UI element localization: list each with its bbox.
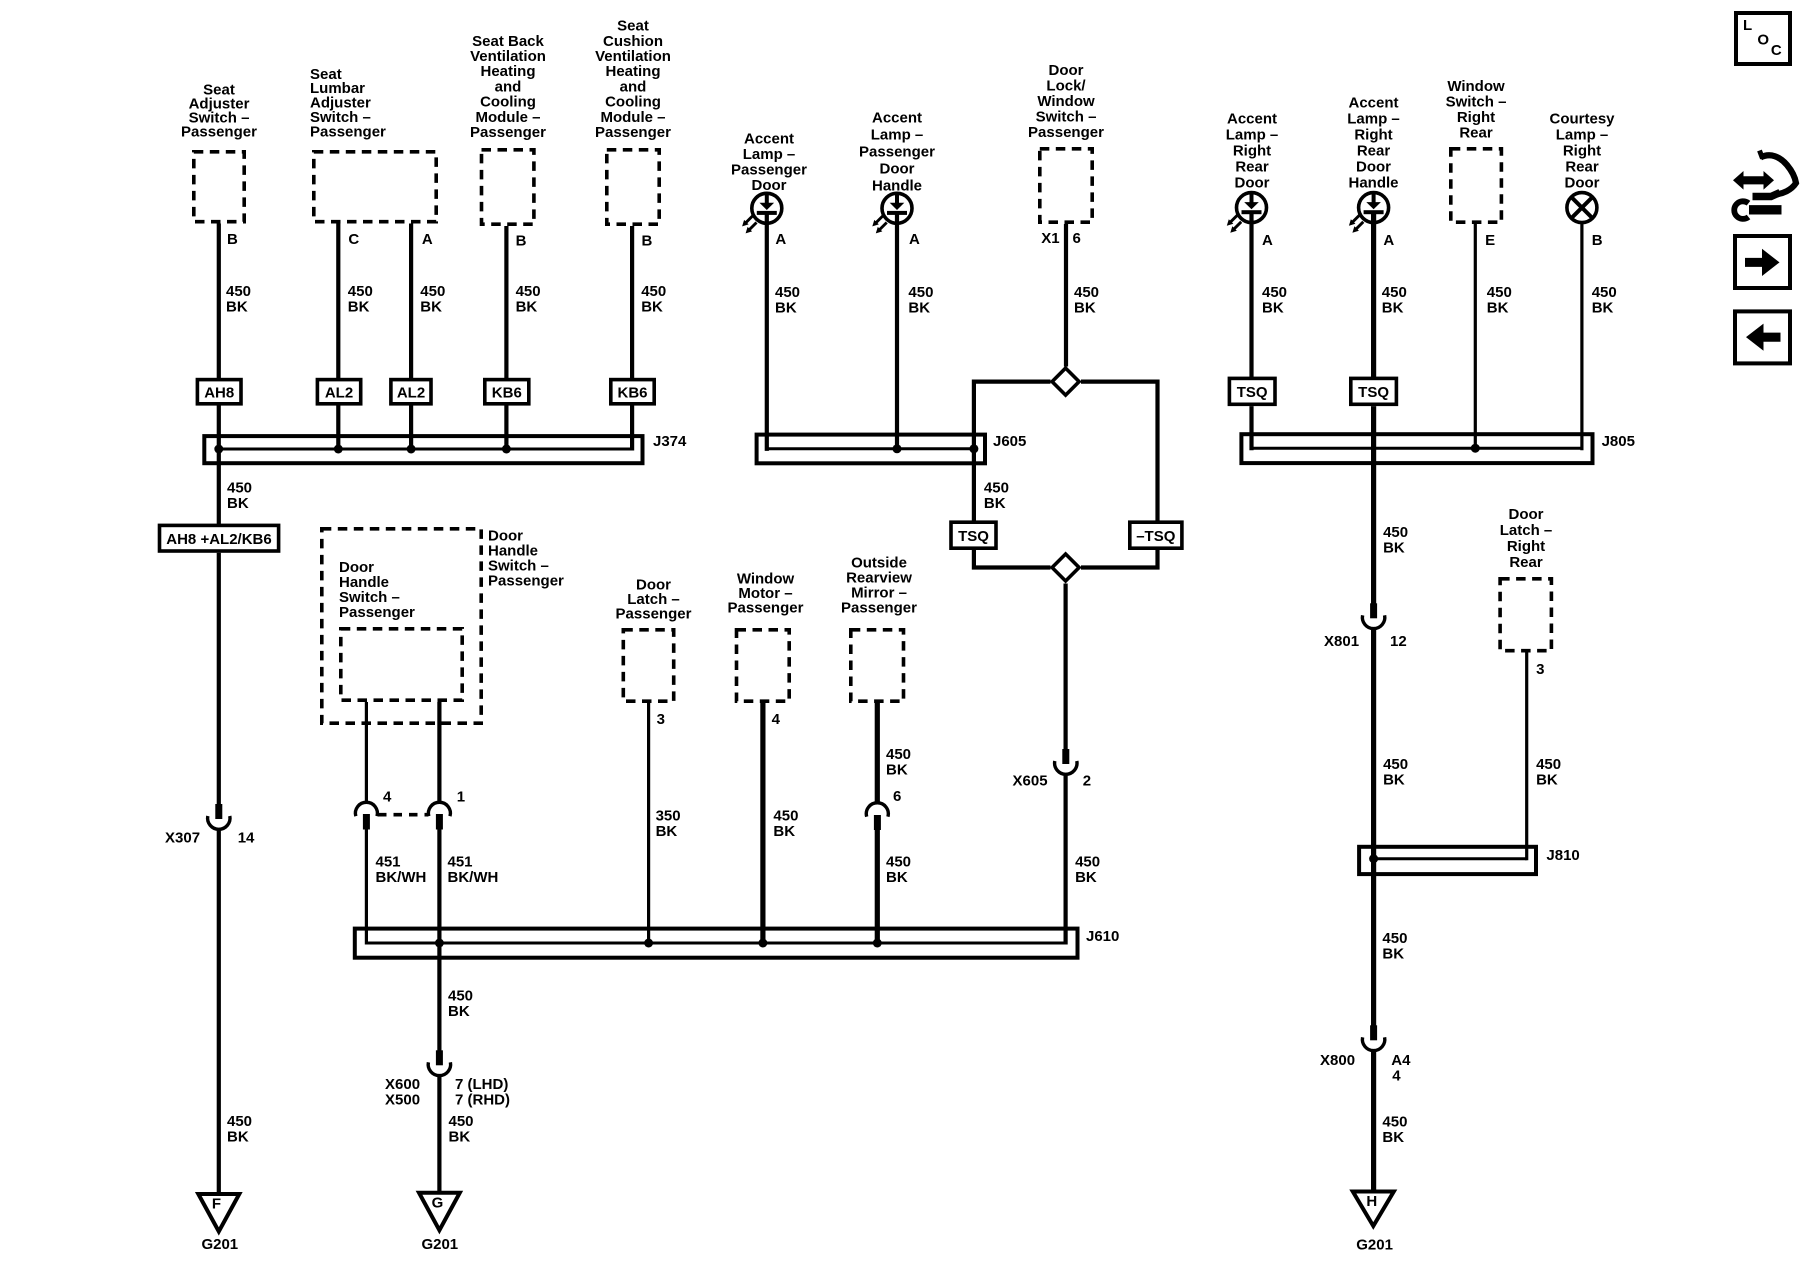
wire: KB6 (2) to J374 corner (630, 404, 634, 451)
inline connector X801 pin 12 (1370, 603, 1377, 618)
component: Door Latch - Right Rear (dashed box) (1500, 579, 1551, 651)
connector code box TSQ (951, 522, 996, 548)
wire: window switch E to J805 (dot) (1474, 224, 1477, 448)
svg-text:Door: Door (752, 177, 787, 194)
junction dot (1471, 444, 1480, 453)
svg-text:B: B (642, 233, 653, 250)
svg-text:Passenger: Passenger (1028, 124, 1104, 141)
svg-text:450: 450 (641, 283, 666, 300)
component: Outside Rearview Mirror - Passenger (dashed box) (851, 630, 904, 701)
svg-text:450: 450 (1074, 284, 1099, 301)
wire: pin 1 connector through J610 to X600 (437, 830, 441, 1051)
svg-text:450: 450 (1262, 284, 1287, 301)
wire: right branch down to -TSQ (1155, 380, 1159, 523)
svg-text:KB6: KB6 (617, 385, 647, 402)
svg-text:A: A (775, 231, 786, 248)
svg-text:Door: Door (1565, 175, 1600, 192)
component: Seat Lumbar Adjuster Switch - Passenger (dashed box) (314, 152, 436, 222)
connector node diamond (bottom) (1052, 554, 1079, 581)
svg-text:Right: Right (1563, 143, 1601, 160)
svg-text:BK/WH: BK/WH (448, 869, 499, 886)
svg-text:450: 450 (227, 1113, 252, 1130)
label: Door Latch - Passenger (616, 577, 692, 623)
svg-text:BK: BK (984, 495, 1006, 512)
wire: inner box pin 1 down (437, 702, 441, 804)
wire: accent lamp 1 to J605 (corner) (765, 213, 769, 451)
svg-text:1: 1 (457, 789, 465, 806)
svg-text:Courtesy: Courtesy (1549, 111, 1615, 128)
junction dot (893, 444, 902, 453)
wire: X801 through J810 down to X800 (1371, 630, 1376, 1026)
wire: accent lamp RR door to TSQ (1249, 212, 1253, 378)
svg-text:J605: J605 (993, 433, 1026, 450)
svg-text:450: 450 (1487, 284, 1512, 301)
inline connector (mirror pin 6) (866, 803, 888, 817)
label: Door Handle Switch - Passenger (inside box) (339, 559, 415, 621)
svg-text:Passenger: Passenger (731, 162, 807, 179)
wire: pin 4 connector to J610 (365, 830, 368, 945)
svg-text:Lock/: Lock/ (1046, 78, 1086, 95)
ground symbol H (1353, 1192, 1394, 1227)
svg-text:X605: X605 (1013, 773, 1048, 790)
lamp L3: Accent Lamp - Right Rear Door (LED symbol) (1227, 192, 1267, 233)
splice bus J374 (204, 436, 642, 463)
svg-text:BK: BK (1592, 300, 1614, 317)
svg-text:6: 6 (893, 788, 901, 805)
svg-text:450: 450 (886, 854, 911, 871)
component: Seat Back Ventilation Heating and Cooling Module (dashed box) (482, 150, 534, 224)
svg-text:AL2: AL2 (397, 385, 425, 402)
label: Seat Cushion Ventilation Heating and Cooling Module - Passenger (595, 18, 671, 141)
wire: X600 to ground G (437, 1077, 441, 1192)
svg-text:Lamp –: Lamp – (871, 127, 924, 144)
svg-text:Passenger: Passenger (841, 600, 917, 617)
wire: Seat Adjuster Switch B to AH8 box (217, 224, 221, 380)
svg-text:J810: J810 (1546, 847, 1579, 864)
label: Window Motor - Passenger (728, 571, 804, 617)
svg-text:G: G (432, 1195, 444, 1212)
svg-text:Rear: Rear (1235, 159, 1269, 176)
svg-text:–TSQ: –TSQ (1136, 528, 1176, 545)
svg-text:BK: BK (908, 300, 930, 317)
svg-text:Handle: Handle (1348, 175, 1398, 192)
svg-text:450: 450 (449, 1113, 474, 1130)
svg-text:TSQ: TSQ (958, 528, 989, 545)
svg-text:451: 451 (448, 854, 473, 871)
svg-text:Lamp –: Lamp – (1347, 111, 1400, 128)
svg-text:Accent: Accent (1348, 95, 1398, 112)
icon: back arrow box (1735, 311, 1790, 363)
component: door handle switch inner dashed box (341, 629, 462, 700)
svg-text:BK: BK (420, 299, 442, 316)
svg-text:Door: Door (1356, 159, 1391, 176)
junction dot (407, 445, 416, 454)
svg-text:450: 450 (1382, 930, 1407, 947)
svg-text:BK: BK (1487, 300, 1509, 317)
svg-text:A: A (1262, 232, 1273, 249)
wire: mirror pin 6 down to connector (875, 703, 880, 804)
svg-text:450: 450 (448, 988, 473, 1005)
svg-text:14: 14 (238, 830, 255, 847)
wire: accent lamp RR door handle to TSQ (1371, 212, 1376, 378)
svg-text:BK: BK (1382, 1129, 1404, 1146)
svg-text:BK: BK (227, 495, 249, 512)
connector code box -TSQ (1130, 522, 1182, 548)
wire: X800 to ground H (1371, 1052, 1376, 1191)
label: Door Latch - Right Rear (1500, 506, 1553, 571)
svg-text:Lamp –: Lamp – (1556, 127, 1609, 144)
component: Seat Cushion Ventilation Heating and Cooling Module (dashed box) (607, 150, 659, 224)
svg-text:BK: BK (775, 300, 797, 317)
svg-text:AH8: AH8 (204, 385, 234, 402)
wire: AL2 (C) to J374 (336, 404, 340, 449)
svg-text:BK: BK (886, 869, 908, 886)
junction dot (758, 939, 767, 948)
wire: diamond horizontal left branch (974, 380, 1051, 384)
wire: lumbar pin C to AL2 (336, 224, 340, 380)
svg-text:BK: BK (1536, 772, 1558, 789)
junction dot (873, 939, 882, 948)
svg-text:BK: BK (1074, 300, 1096, 317)
svg-text:450: 450 (516, 283, 541, 300)
svg-text:Lamp –: Lamp – (1226, 127, 1279, 144)
label: Door Handle Switch - Passenger (right of box) (488, 528, 564, 590)
svg-text:BK/WH: BK/WH (376, 869, 427, 886)
inline connector (pin 4) (355, 802, 377, 816)
svg-text:BK: BK (348, 299, 370, 316)
junction dot (644, 939, 653, 948)
connector code box AL2 (391, 380, 431, 404)
svg-text:7 (RHD): 7 (RHD) (455, 1092, 510, 1109)
connector code box TSQ (right 2) (1351, 378, 1397, 404)
svg-text:TSQ: TSQ (1358, 384, 1389, 401)
svg-text:Window: Window (1037, 93, 1095, 110)
svg-text:BK: BK (773, 823, 795, 840)
splice bus J810 (1359, 847, 1536, 874)
svg-text:BK: BK (1382, 946, 1404, 963)
svg-text:TSQ: TSQ (1237, 384, 1268, 401)
connector code box AH8 (197, 380, 241, 404)
label: Seat Adjuster Switch - Passenger (181, 82, 257, 141)
wire: diamond horizontal right branch (1081, 380, 1158, 384)
svg-text:X801: X801 (1324, 633, 1359, 650)
svg-text:350: 350 (656, 808, 681, 825)
component: Door Latch - Passenger (dashed box) (623, 630, 673, 701)
wire: TSQ down and right to bottom diamond (974, 550, 1051, 568)
lamp L2: Accent Lamp - Passenger Door Handle (LED symbol) (872, 193, 912, 234)
svg-text:Passenger: Passenger (859, 144, 935, 161)
wire: lumbar pin A to AL2 (409, 224, 413, 380)
connector code box KB6 (611, 380, 654, 404)
wire: door latch RR pin 3 to J810 (corner) (1525, 653, 1528, 861)
component: Seat Adjuster Switch - Passenger (dashed box) (194, 152, 244, 222)
dashed connector tie line (378, 813, 428, 817)
svg-text:G201: G201 (421, 1236, 458, 1253)
svg-text:BK: BK (1382, 300, 1404, 317)
svg-text:B: B (516, 233, 527, 250)
connector code box KB6 (485, 380, 529, 404)
svg-text:X800: X800 (1320, 1052, 1355, 1069)
svg-text:BK: BK (886, 762, 908, 779)
splice bus J605 (757, 435, 985, 464)
wire: window motor pin 4 to J610 (760, 703, 765, 943)
junction dot (502, 445, 511, 454)
svg-text:4: 4 (1392, 1068, 1401, 1085)
wire: X605 to J610 (corner) (1063, 776, 1067, 945)
svg-text:BK: BK (1383, 540, 1405, 557)
wire: inner box pin 4 down (365, 702, 368, 804)
label: Accent Lamp - Right Rear Door Handle (1347, 95, 1400, 192)
wire: AL2 (A) to J374 (409, 404, 413, 449)
svg-text:X1: X1 (1041, 230, 1059, 247)
connector code box AL2 (317, 380, 360, 404)
ground symbol F (198, 1194, 239, 1232)
svg-text:Passenger: Passenger (728, 600, 804, 617)
svg-text:3: 3 (1536, 661, 1544, 678)
svg-text:C: C (348, 231, 359, 248)
svg-text:Right: Right (1233, 143, 1271, 160)
splice bus J805 (1241, 434, 1592, 463)
wire: KB6 to J374 (504, 404, 508, 449)
svg-text:2: 2 (1083, 773, 1091, 790)
wire: bottom diamond down to X605 (1063, 584, 1067, 750)
svg-text:7 (LHD): 7 (LHD) (455, 1076, 508, 1093)
svg-text:X307: X307 (165, 830, 200, 847)
svg-text:A4: A4 (1391, 1052, 1411, 1069)
svg-text:BK: BK (1383, 772, 1405, 789)
svg-text:450: 450 (1075, 854, 1100, 871)
svg-text:BK: BK (226, 299, 248, 316)
svg-text:L: L (1743, 17, 1752, 34)
inline connector X600/X500 pin 7 (436, 1050, 443, 1065)
svg-text:J374: J374 (653, 433, 687, 450)
wire: AH8+AL2/KB6 down to X307 (217, 553, 221, 805)
svg-text:BK: BK (448, 1003, 470, 1020)
wire: connector to J610 (875, 830, 880, 943)
svg-text:450: 450 (908, 284, 933, 301)
svg-text:A: A (909, 231, 920, 248)
inline connector X307 pin 14 (215, 804, 222, 819)
svg-text:Rear: Rear (1509, 554, 1543, 571)
label: Door Lock/Window Switch - Passenger (1028, 62, 1104, 141)
label: Courtesy Lamp - Right Rear Door (1549, 111, 1615, 192)
svg-text:BK: BK (227, 1129, 249, 1146)
inline connector X800 pin A4/4 (1370, 1025, 1377, 1040)
svg-text:450: 450 (775, 284, 800, 301)
svg-text:450: 450 (1383, 756, 1408, 773)
svg-text:6: 6 (1073, 230, 1081, 247)
svg-text:F: F (212, 1196, 221, 1213)
svg-text:Lamp –: Lamp – (743, 146, 796, 163)
ground symbol G (419, 1193, 460, 1231)
inline connector X605 pin 2 (1062, 749, 1069, 764)
svg-text:Rear: Rear (1459, 125, 1493, 142)
svg-text:O: O (1757, 31, 1769, 48)
icon: forward arrow box (1735, 236, 1790, 288)
label: Accent Lamp - Passenger Door (731, 131, 807, 195)
svg-text:X500: X500 (385, 1092, 420, 1109)
wire: seat back module B to KB6 (504, 226, 508, 379)
svg-text:450: 450 (226, 283, 251, 300)
wire: accent lamp 2 to J605 (dot) (895, 213, 899, 450)
wire: AH8 box down through splice J374 to AH8+AL2/KB6 box (217, 404, 221, 525)
svg-text:BK: BK (1262, 300, 1284, 317)
svg-text:4: 4 (383, 789, 392, 806)
lamp L4: Accent Lamp - Right Rear Door Handle (LED symbol) (1349, 192, 1389, 233)
wire: left branch down through J605 to TSQ (972, 380, 976, 523)
svg-text:450: 450 (227, 480, 252, 497)
svg-text:Passenger: Passenger (339, 604, 415, 621)
svg-text:450: 450 (1382, 1114, 1407, 1131)
lamp L1: Accent Lamp - Passenger Door (LED symbol) (742, 193, 782, 234)
svg-text:Right: Right (1457, 109, 1495, 126)
svg-text:J805: J805 (1602, 433, 1635, 450)
svg-text:4: 4 (772, 711, 781, 728)
label: Window Switch - Right Rear (1446, 78, 1507, 142)
svg-text:AL2: AL2 (325, 385, 353, 402)
connector code box AH8 +AL2/KB6 (160, 525, 279, 551)
svg-text:BK: BK (641, 299, 663, 316)
svg-text:B: B (227, 231, 238, 248)
svg-text:G201: G201 (201, 1236, 238, 1253)
junction dot (1369, 854, 1378, 863)
svg-text:Passenger: Passenger (488, 573, 564, 590)
svg-text:450: 450 (984, 480, 1009, 497)
svg-text:Passenger: Passenger (310, 123, 386, 140)
svg-text:BK: BK (656, 823, 678, 840)
svg-text:Door: Door (1049, 62, 1084, 79)
svg-text:BK: BK (1075, 869, 1097, 886)
svg-text:B: B (1592, 232, 1603, 249)
svg-text:Door: Door (1235, 175, 1270, 192)
icon: LOC reference box (1736, 13, 1790, 64)
svg-text:Right: Right (1354, 127, 1392, 144)
svg-text:KB6: KB6 (492, 385, 522, 402)
svg-text:Rear: Rear (1565, 159, 1599, 176)
svg-text:J610: J610 (1086, 928, 1119, 945)
wire: TSQ through J805 down to X801 (1371, 406, 1376, 604)
label: Accent Lamp - Right Rear Door (1226, 111, 1279, 192)
svg-text:A: A (422, 231, 433, 248)
wire: door lock switch X1-6 down to diamond (1064, 224, 1068, 367)
svg-text:450: 450 (348, 283, 373, 300)
svg-text:Accent: Accent (872, 110, 922, 127)
component: Window Motor - Passenger (dashed box) (737, 630, 790, 701)
wire: door latch pin 3 to J610 (647, 703, 650, 943)
svg-text:3: 3 (657, 711, 665, 728)
svg-text:Accent: Accent (744, 131, 794, 148)
label: Seat Lumbar Adjuster Switch - Passenger (310, 66, 386, 141)
svg-text:451: 451 (376, 854, 401, 871)
svg-text:Right: Right (1507, 538, 1545, 555)
svg-text:BK: BK (516, 299, 538, 316)
wire: TSQ to J805 (corner) (1249, 406, 1253, 450)
inline connector (pin 1) (428, 802, 450, 816)
svg-text:Window: Window (1447, 78, 1505, 95)
svg-text:Door: Door (880, 161, 915, 178)
splice bus J610 (355, 929, 1078, 958)
svg-text:Door: Door (1509, 506, 1544, 523)
junction dot (435, 939, 444, 948)
junction dot (334, 445, 343, 454)
svg-text:450: 450 (420, 283, 445, 300)
svg-text:450: 450 (1536, 756, 1561, 773)
svg-text:450: 450 (1382, 284, 1407, 301)
svg-text:Switch –: Switch – (1446, 94, 1507, 111)
svg-text:BK: BK (449, 1129, 471, 1146)
label: Outside Rearview Mirror - Passenger (841, 555, 917, 617)
label: Seat Back Ventilation Heating and Cooling Module - Passenger (470, 33, 546, 141)
svg-text:450: 450 (886, 746, 911, 763)
junction dot (969, 444, 978, 453)
svg-text:H: H (1366, 1193, 1377, 1210)
label: Accent Lamp - Passenger Door Handle (859, 110, 935, 195)
svg-text:Passenger: Passenger (595, 124, 671, 141)
svg-text:Passenger: Passenger (181, 124, 257, 141)
connector node diamond (top) (1052, 368, 1079, 395)
svg-text:Passenger: Passenger (470, 124, 546, 141)
wire: X307 down to ground F (217, 831, 221, 1194)
component: Window Switch - Right Rear (dashed box) (1451, 149, 1502, 222)
svg-text:450: 450 (1383, 524, 1408, 541)
svg-text:E: E (1485, 232, 1495, 249)
svg-text:Switch –: Switch – (1036, 109, 1097, 126)
icon: hand/navigation glyph (1733, 151, 1796, 219)
lamp L5: Courtesy Lamp - Right Rear Door (bulb symbol) (1567, 193, 1597, 223)
component: Door Handle Switch - Passenger (outer dashed box) (322, 529, 481, 723)
wire: seat cushion module B to KB6 (630, 226, 634, 379)
svg-text:A: A (1383, 232, 1394, 249)
svg-text:450: 450 (1592, 284, 1617, 301)
junction dot (214, 445, 223, 454)
svg-text:Accent: Accent (1227, 111, 1277, 128)
svg-text:AH8 +AL2/KB6: AH8 +AL2/KB6 (166, 531, 271, 548)
connector code box TSQ (right 1) (1229, 378, 1275, 404)
svg-text:X600: X600 (385, 1076, 420, 1093)
svg-text:C: C (1771, 42, 1782, 59)
svg-text:G201: G201 (1356, 1237, 1393, 1254)
svg-text:Rear: Rear (1357, 143, 1391, 160)
component: Door Lock/Window Switch - Passenger (dashed box) (1040, 149, 1092, 222)
svg-text:12: 12 (1390, 633, 1407, 650)
svg-text:Passenger: Passenger (616, 606, 692, 623)
wire: -TSQ down and left to bottom diamond (1081, 550, 1158, 568)
svg-text:Latch –: Latch – (1500, 522, 1553, 539)
wire: courtesy lamp to J805 (corner) (1580, 223, 1583, 450)
svg-text:450: 450 (773, 808, 798, 825)
